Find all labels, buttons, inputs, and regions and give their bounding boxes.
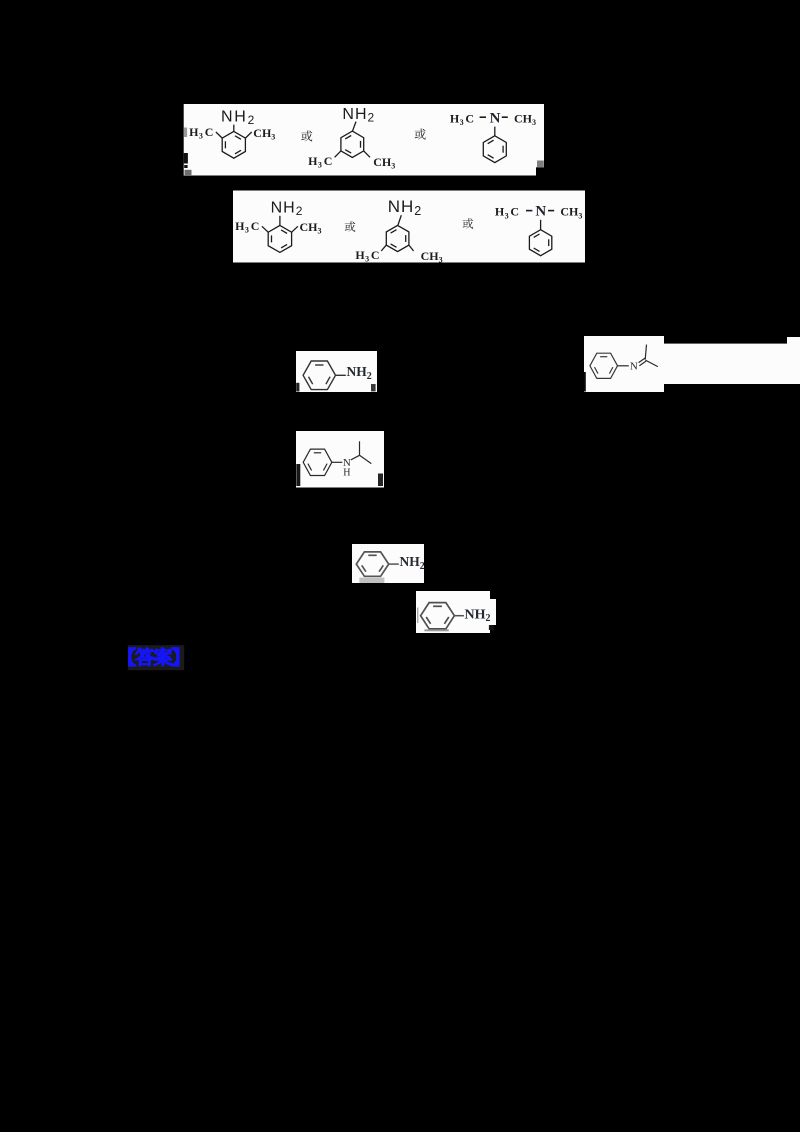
structure N-isopropylaniline (box5) <box>303 441 371 478</box>
structure aniline (box7) <box>418 603 491 632</box>
stray mark: fragment bottom-right of box3 <box>371 384 376 391</box>
structure aniline (box6) <box>356 552 424 583</box>
white image box 4: phenyl imine with right strip <box>584 336 664 392</box>
stray mark: black text fragment left-bottom of box1 <box>184 153 188 164</box>
structure 3,5-dimethylaniline (box1) <box>308 106 395 171</box>
structure 3,5-dimethylaniline (box2) <box>355 197 442 264</box>
white image box 1: three answer structures <box>184 104 544 176</box>
structure 2,6-dimethylaniline (box2) <box>235 199 321 252</box>
white image box 7: aniline small lower <box>416 591 490 633</box>
svg-text:N: N <box>630 361 638 373</box>
blue answer text 【答案】 <box>129 648 179 666</box>
structure aniline (box3) <box>303 361 372 390</box>
white image box 5: N-isopropylaniline <box>296 431 384 488</box>
stray mark: bracket fragment bottom-left of box3 <box>296 383 299 392</box>
structure N,N-dimethylaniline (box2) <box>495 204 583 256</box>
stray mark: black cut corner bottom-right of box1 <box>536 167 544 175</box>
stray mark: bracket fragment bottom-left of box5 <box>296 464 300 486</box>
stray mark: gray square below-left of box1 <box>185 170 192 176</box>
svg-text:N: N <box>535 204 546 220</box>
stray mark: gray fragment left of box1 <box>184 128 187 138</box>
stray mark: dark dot right of box7 <box>489 625 494 630</box>
text 或 (or) #4 <box>463 218 474 229</box>
stray mark: black bar bottom-left edge of box4 <box>584 372 586 392</box>
text 或 (or) #3 <box>345 221 356 232</box>
text 或 (or) #2 <box>415 129 426 140</box>
white image box 2: three answer structures (repeat) <box>233 191 585 263</box>
structure N-phenyl propan-2-imine (box4) <box>590 345 658 379</box>
white image box 6: aniline small <box>352 544 424 583</box>
structure N,N-dimethylaniline (box1) <box>450 110 536 162</box>
white image box 3: aniline <box>296 351 377 392</box>
svg-text:H: H <box>343 467 350 478</box>
structure 2,6-dimethylaniline (box1) <box>189 109 275 159</box>
text 或 (or) #1 <box>301 130 312 141</box>
svg-text:N: N <box>490 110 501 126</box>
stray mark: fragment bottom-right of box5 <box>378 474 383 487</box>
answer label background (dark gray) <box>128 645 184 670</box>
stray mark: gray square bottom-right inside box1 <box>537 161 544 168</box>
